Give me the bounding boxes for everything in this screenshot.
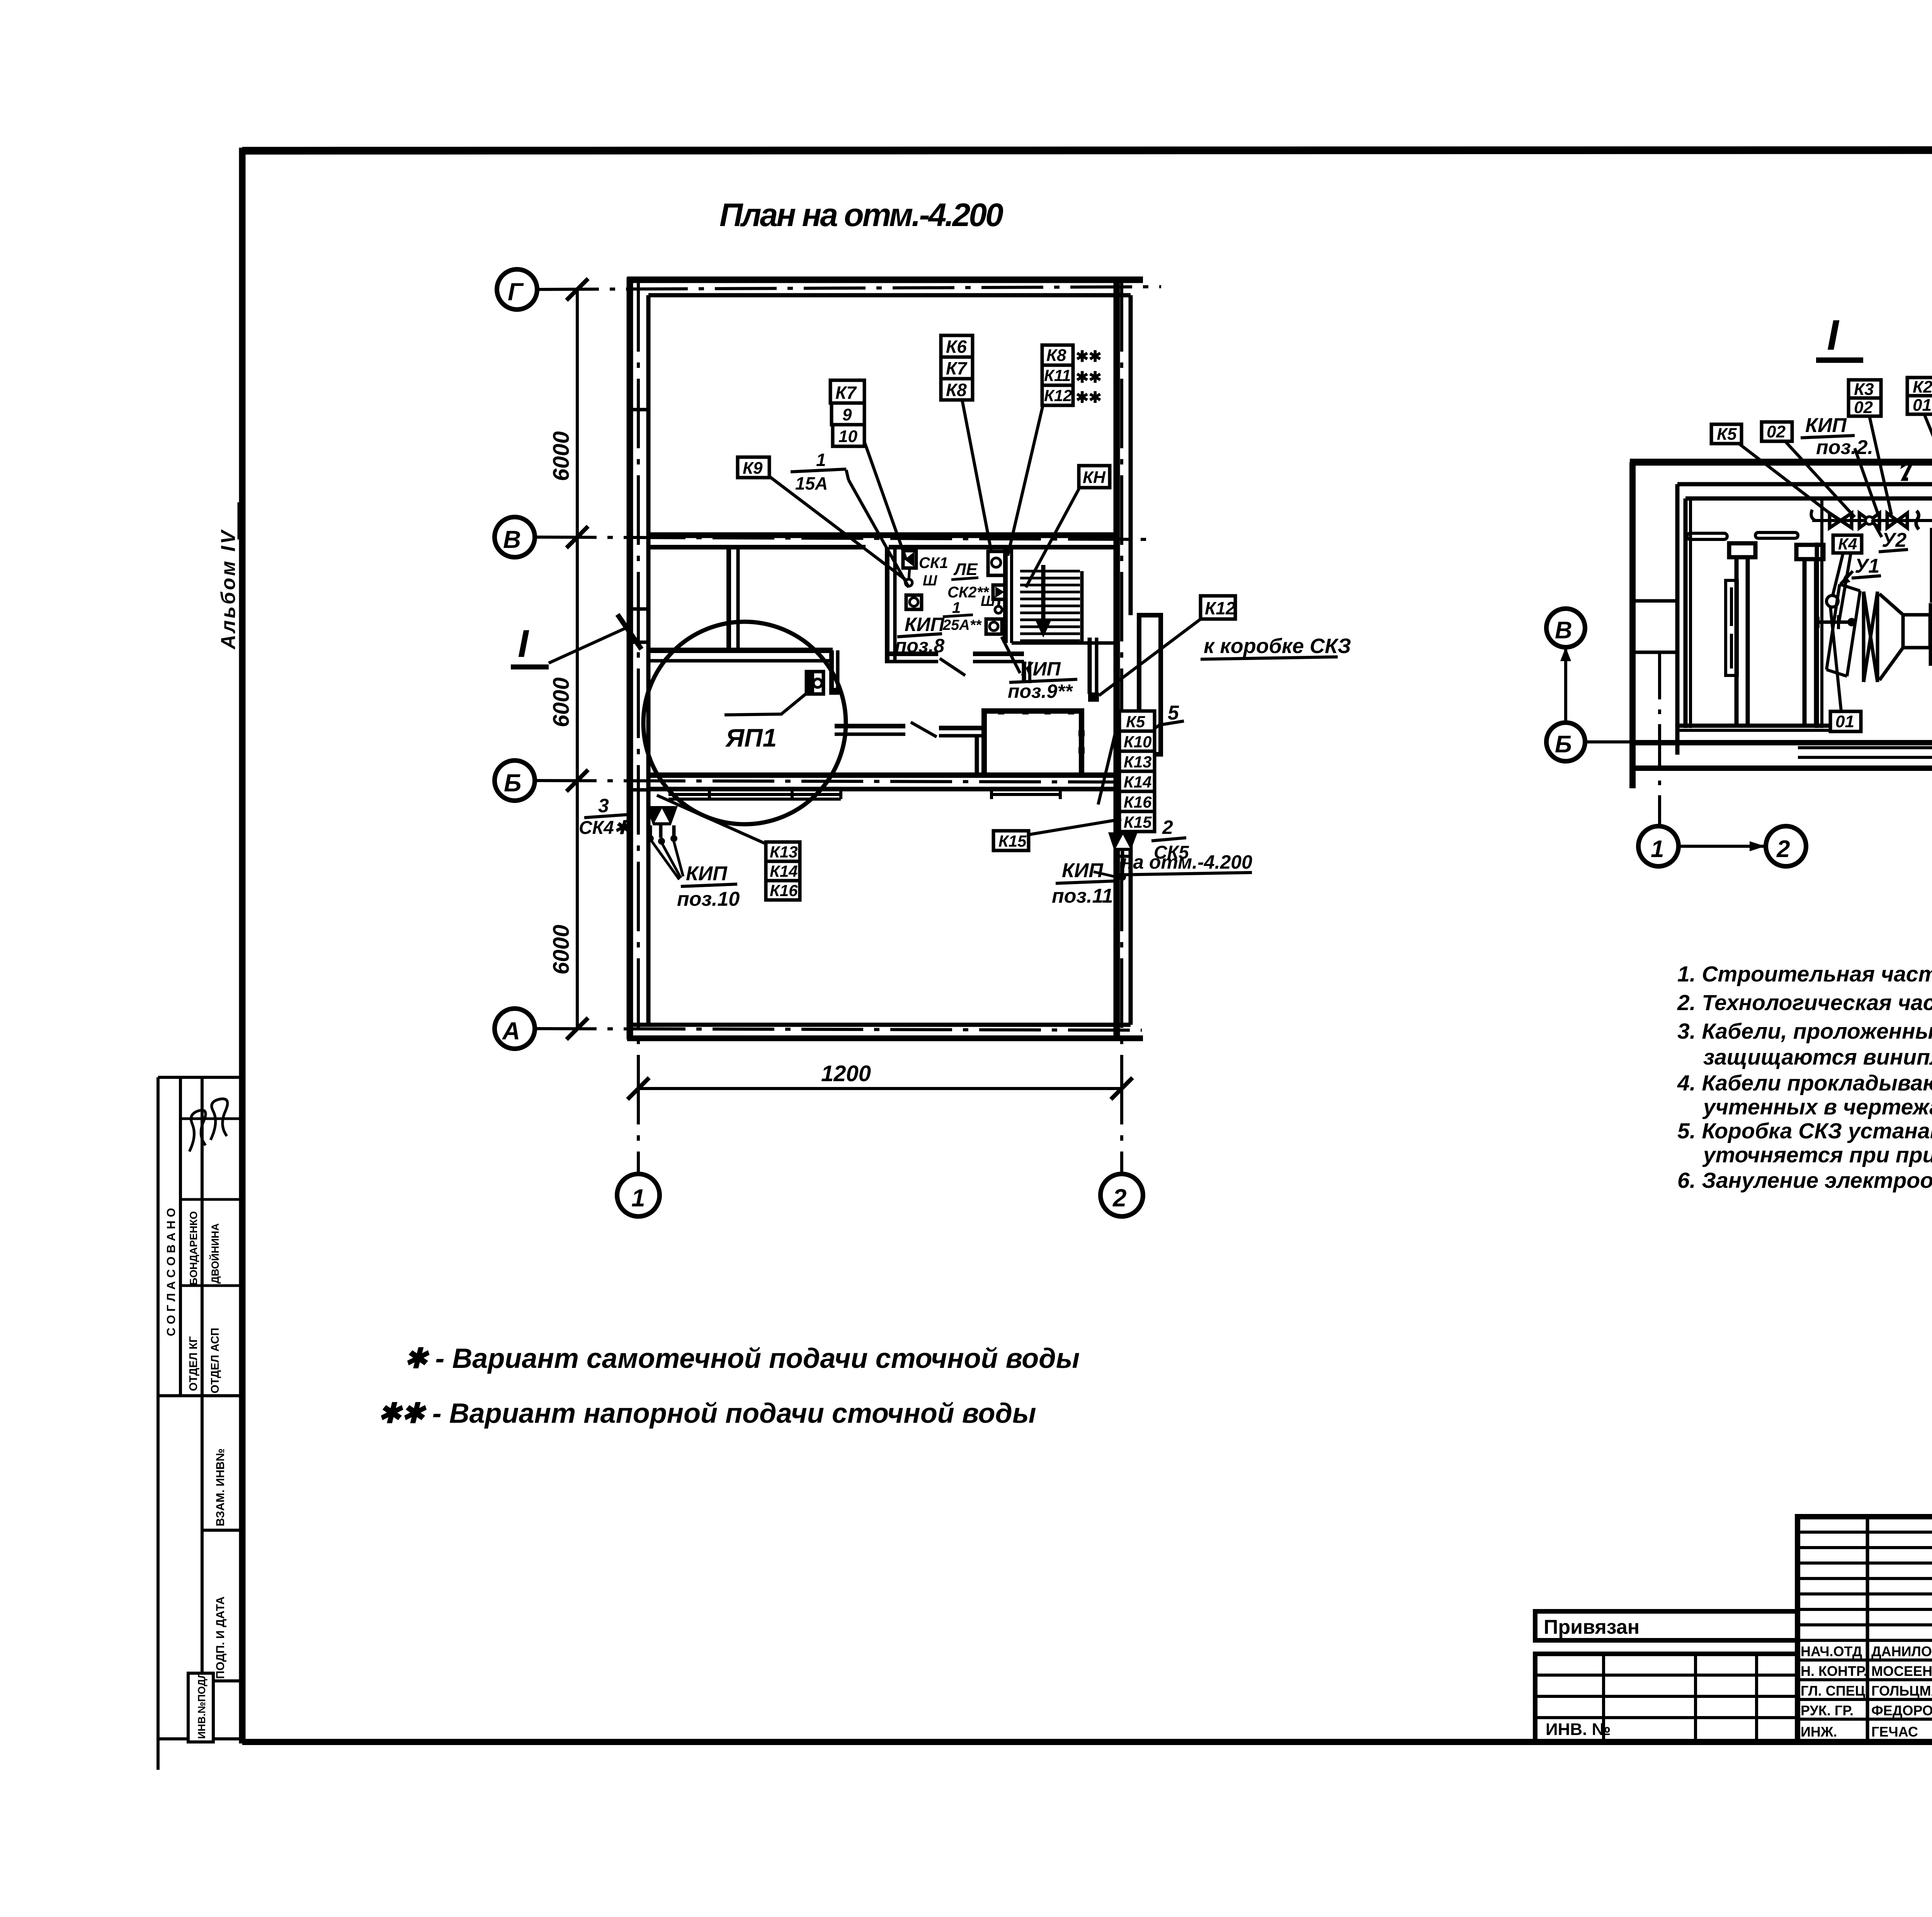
svg-text:КИП: КИП — [686, 862, 728, 885]
svg-text:поз.11: поз.11 — [1052, 885, 1113, 907]
valve bowtie 3 — [1887, 513, 1907, 528]
svg-text:поз.9**: поз.9** — [1008, 680, 1073, 702]
V1 stub wall — [829, 650, 834, 694]
building walls — [627, 277, 1161, 1039]
svg-text:✱✱ - Вариант напорной подачи: ✱✱ - Вариант напорной подачи сточной вод… — [378, 1398, 1036, 1429]
right door buttress — [1139, 615, 1161, 754]
break arrow on roof — [1903, 462, 1912, 479]
svg-text:ИНВ.№ПОДЛ: ИНВ.№ПОДЛ — [196, 1672, 207, 1739]
door coil box — [1088, 692, 1099, 702]
svg-text:✱ - Вариант самотечной подач: ✱ - Вариант самотечной подачи сточной во… — [404, 1343, 1080, 1374]
stair hatch — [1020, 571, 1082, 643]
partition wall V0 — [729, 547, 738, 653]
svg-text:ОТДЕЛ КГ: ОТДЕЛ КГ — [187, 1336, 200, 1391]
svg-text:ГЛ. СПЕЦ.: ГЛ. СПЕЦ. — [1801, 1683, 1869, 1699]
narrow revision rows — [1798, 1531, 1932, 1534]
vessel floor — [1679, 724, 1859, 728]
axis circle В — [495, 517, 535, 557]
main floor slab — [1630, 740, 1932, 745]
callout stack К2/01 — [1907, 378, 1932, 396]
axis line А — [535, 1029, 1142, 1030]
axis line Г — [537, 287, 1161, 289]
louver plates — [1687, 533, 1727, 539]
sidebar stamp table — [158, 1077, 240, 1770]
svg-text:ИНЖ.: ИНЖ. — [1801, 1724, 1837, 1740]
svg-text:01: 01 — [1913, 396, 1932, 415]
svg-text:25А**: 25А** — [942, 617, 982, 633]
svg-text:КИП: КИП — [1021, 658, 1061, 680]
svg-text:К6: К6 — [946, 337, 967, 357]
right wall — [1114, 277, 1120, 1039]
vertical dimension line — [576, 289, 579, 1029]
callout stack К6/К7/К8 — [941, 335, 973, 400]
svg-text:К10: К10 — [1124, 733, 1152, 751]
inner left wall of vessel room — [1684, 498, 1688, 728]
svg-text:К14: К14 — [1124, 773, 1152, 791]
corridor wall segment B — [939, 726, 981, 730]
svg-text:к коробке СКЗ: к коробке СКЗ — [1204, 634, 1351, 658]
right door jamb — [1088, 638, 1092, 694]
svg-text:СК4✱: СК4✱ — [579, 818, 631, 838]
valve bowtie 1 — [1830, 513, 1852, 528]
bottom wall А — [630, 1023, 1131, 1027]
flag device 2 — [988, 551, 1006, 575]
left wall — [1629, 462, 1636, 788]
01 callout — [1830, 711, 1861, 731]
Б axis wall — [648, 772, 1117, 778]
svg-text:6000: 6000 — [549, 925, 574, 975]
svg-text:6. Зануление электрооборудов: 6. Зануление электрооборудования выполни… — [1677, 1168, 1932, 1193]
roof — [1630, 459, 1932, 466]
tank 1 — [1726, 543, 1755, 726]
svg-text:КН: КН — [1083, 468, 1106, 487]
axis line В — [535, 537, 1155, 539]
svg-text:1: 1 — [631, 1184, 645, 1212]
svg-text:Б: Б — [504, 769, 521, 797]
door swing — [911, 722, 937, 737]
svg-text:✱✱: ✱✱ — [1076, 369, 1102, 386]
svg-text:ГОЛЬЦМАН: ГОЛЬЦМАН — [1871, 1683, 1932, 1699]
big detail circle — [643, 622, 846, 824]
svg-text:У2: У2 — [1882, 529, 1906, 551]
svg-text:уточняется при привязке про: уточняется при привязке проекта. — [1702, 1143, 1932, 1167]
svg-text:К2: К2 — [1913, 378, 1932, 396]
ЯП1 room top wall — [648, 650, 838, 694]
tee mark — [1916, 511, 1919, 529]
svg-text:К8: К8 — [946, 380, 967, 400]
floor sill strips below Б wall — [668, 793, 841, 796]
column axis 2 line — [1120, 282, 1123, 1174]
svg-text:Привязан: Привязан — [1544, 1616, 1639, 1638]
svg-text:3: 3 — [598, 795, 609, 816]
svg-text:ДВОЙНИНА: ДВОЙНИНА — [209, 1223, 221, 1284]
X frame — [1864, 592, 1878, 682]
callout stack К7/9/10 — [830, 380, 864, 446]
signature squiggles — [189, 1110, 206, 1152]
axis circle 1 — [617, 1174, 660, 1216]
svg-text:С О Г Л А С О В А Н О: С О Г Л А С О В А Н О — [164, 1208, 178, 1336]
pipe with valves — [1811, 510, 1932, 520]
svg-text:К7: К7 — [946, 358, 968, 378]
svg-text:К13: К13 — [770, 843, 798, 861]
axis circle А — [495, 1009, 535, 1049]
axis В circle — [1546, 609, 1585, 647]
svg-text:I: I — [1827, 311, 1840, 359]
svg-text:НАЧ.ОТД: НАЧ.ОТД — [1801, 1643, 1862, 1659]
callout stack К3/02 — [1849, 380, 1881, 398]
motor and slanted frame — [1827, 595, 1838, 607]
column axis 1 line — [637, 282, 640, 1174]
svg-text:Н. КОНТР.: Н. КОНТР. — [1801, 1663, 1867, 1679]
svg-text:10: 10 — [838, 427, 857, 446]
svg-text:поз.8: поз.8 — [895, 635, 944, 657]
stair arrow — [1041, 565, 1046, 626]
svg-text:1. Строительная часть приня: 1. Строительная часть принята на основан… — [1677, 962, 1932, 987]
door swing — [940, 658, 965, 675]
svg-text:Г: Г — [508, 278, 524, 306]
equipment rectangle — [984, 711, 1082, 775]
К15 callout — [993, 831, 1029, 850]
axis circle Г — [497, 269, 537, 310]
svg-text:У1: У1 — [1855, 555, 1879, 577]
К4 callout — [1833, 535, 1862, 553]
callout stack К8/К11/К12 — [1042, 345, 1073, 405]
svg-text:К7: К7 — [835, 383, 857, 403]
funnel symbol right — [1094, 832, 1138, 881]
axis line Б — [535, 781, 1155, 782]
svg-text:К9: К9 — [743, 459, 763, 478]
callout КН — [1079, 466, 1110, 488]
svg-text:В: В — [503, 526, 521, 553]
svg-text:поз.2.: поз.2. — [1816, 436, 1873, 459]
dim line 1200 — [638, 1087, 1122, 1090]
svg-text:К13: К13 — [1124, 753, 1152, 771]
svg-text:1200: 1200 — [821, 1061, 871, 1086]
svg-text:1: 1 — [952, 599, 961, 616]
svg-text:К12: К12 — [1044, 386, 1072, 405]
axis circle 2 — [1100, 1174, 1143, 1216]
album IV vertical label — [217, 502, 240, 650]
leader diagonals — [1739, 414, 1932, 620]
svg-text:План на отм.-4.200: План на отм.-4.200 — [719, 197, 1003, 233]
svg-text:Ш: Ш — [923, 573, 937, 589]
svg-text:15А: 15А — [795, 473, 828, 493]
svg-text:КИП: КИП — [905, 614, 945, 635]
svg-text:К4: К4 — [1838, 535, 1857, 553]
middle room left wall V2 — [835, 547, 1115, 775]
vessel right wall — [1815, 543, 1819, 728]
valve bowtie 2 — [1859, 513, 1879, 528]
svg-text:ГЕЧАС: ГЕЧАС — [1871, 1724, 1918, 1740]
inner ceiling — [1685, 497, 1932, 501]
callout 02 — [1762, 422, 1792, 441]
svg-text:К11: К11 — [1044, 366, 1071, 384]
svg-text:ЯП1: ЯП1 — [725, 723, 777, 752]
svg-text:поз.10: поз.10 — [677, 888, 740, 910]
tank 2 — [1796, 545, 1823, 726]
svg-text:2. Технологическая часть пр: 2. Технологическая часть принята на осно… — [1677, 990, 1932, 1015]
column of callouts К5..К15 — [1119, 711, 1155, 832]
svg-text:5. Коробка СКЗ устанавливае: 5. Коробка СКЗ устанавливается на входно… — [1677, 1119, 1932, 1143]
svg-text:защищаются винипластовыми тру: защищаются винипластовыми трубами. — [1703, 1045, 1932, 1070]
svg-text:СК5: СК5 — [1154, 842, 1189, 863]
В axis wall — [648, 532, 1117, 538]
svg-text:✱✱: ✱✱ — [1076, 389, 1102, 406]
СК1 flag device — [903, 551, 916, 568]
leader lines from callouts — [769, 400, 1080, 587]
axis circle Б — [495, 760, 535, 801]
К12 callout — [1201, 596, 1235, 619]
axis circles 1 and 2 — [1638, 826, 1679, 866]
outer of revision table — [1798, 1517, 1932, 1742]
callout К9 — [738, 457, 769, 478]
border frame — [242, 147, 1932, 1744]
svg-text:К3: К3 — [1854, 380, 1874, 399]
svg-text:К16: К16 — [1124, 793, 1152, 811]
svg-text:учтенных в чертежах марки Э: учтенных в чертежах марки ЭМ. — [1702, 1095, 1932, 1119]
svg-text:02: 02 — [1854, 398, 1873, 417]
svg-text:К15: К15 — [1124, 813, 1152, 831]
svg-text:9: 9 — [842, 405, 852, 424]
middle room bottom wall — [885, 651, 938, 656]
svg-text:МОСЕЕНКО: МОСЕЕНКО — [1871, 1663, 1932, 1679]
cone — [1879, 594, 1930, 680]
top wall — [627, 277, 1143, 283]
svg-text:Б: Б — [1555, 731, 1572, 758]
staff rows — [1798, 1658, 1932, 1662]
svg-text:4. Кабели прокладываются по: 4. Кабели прокладываются по стенам на ка… — [1677, 1071, 1932, 1095]
stair lower wall stub — [1022, 662, 1026, 683]
svg-text:ДАНИЛОВ: ДАНИЛОВ — [1871, 1643, 1932, 1659]
КИП device box — [906, 595, 922, 609]
svg-text:6000: 6000 — [549, 431, 574, 481]
svg-text:1: 1 — [816, 450, 826, 470]
svg-text:К8: К8 — [1046, 346, 1066, 365]
svg-text:КИП: КИП — [1805, 414, 1847, 437]
svg-text:К5: К5 — [1717, 425, 1737, 444]
svg-text:2: 2 — [1112, 1184, 1127, 1212]
svg-text:Альбом IV: Альбом IV — [217, 529, 240, 650]
К13/К14/К16 stack — [766, 842, 800, 900]
building section walls — [1630, 448, 1932, 788]
svg-text:СК1: СК1 — [919, 555, 948, 572]
svg-text:В: В — [1555, 617, 1572, 644]
svg-text:БОНДАРЕНКО: БОНДАРЕНКО — [188, 1211, 199, 1285]
svg-text:К14: К14 — [770, 862, 798, 880]
ЯП1 device — [806, 672, 823, 694]
svg-text:РУК. ГР.: РУК. ГР. — [1801, 1703, 1854, 1718]
svg-text:02: 02 — [1767, 422, 1786, 441]
svg-text:01: 01 — [1835, 712, 1854, 731]
riser to pump — [1930, 528, 1932, 603]
callout К5 — [1711, 424, 1742, 444]
svg-text:1: 1 — [1651, 836, 1664, 862]
svg-text:I: I — [518, 622, 529, 665]
left wall — [627, 277, 633, 1039]
svg-text:ФЕДОРОВА: ФЕДОРОВА — [1871, 1703, 1932, 1718]
КИП device box 2 — [986, 619, 1002, 634]
funnel symbol left — [646, 806, 683, 879]
side plate with slots — [1726, 580, 1737, 675]
svg-text:К15: К15 — [998, 832, 1027, 850]
svg-text:ИНВ. №: ИНВ. № — [1546, 1720, 1611, 1739]
svg-text:ВЗАМ. ИНВ№: ВЗАМ. ИНВ№ — [214, 1448, 227, 1526]
ball bar — [1818, 621, 1850, 624]
svg-text:К16: К16 — [770, 881, 798, 900]
privyazan box — [1535, 1611, 1798, 1640]
svg-text:К12: К12 — [1205, 598, 1236, 618]
svg-text:3. Кабели, проложенные на в: 3. Кабели, проложенные на высоте до 2-х … — [1677, 1019, 1932, 1044]
svg-text:ОТДЕЛ АСП: ОТДЕЛ АСП — [209, 1328, 221, 1393]
svg-text:✱✱: ✱✱ — [1076, 348, 1102, 365]
svg-text:2: 2 — [1162, 816, 1173, 838]
svg-text:ЛЕ: ЛЕ — [953, 560, 978, 579]
svg-text:2: 2 — [1776, 836, 1790, 862]
svg-text:А: А — [502, 1017, 520, 1045]
corridor wall segment A — [835, 724, 905, 728]
svg-text:К5: К5 — [1126, 713, 1145, 731]
axis Б circle — [1546, 723, 1585, 761]
svg-text:КИП: КИП — [1062, 859, 1104, 882]
stair left wall — [1003, 547, 1008, 643]
svg-text:6000: 6000 — [549, 677, 574, 727]
svg-text:ПОДП. И ДАТА: ПОДП. И ДАТА — [214, 1596, 227, 1679]
